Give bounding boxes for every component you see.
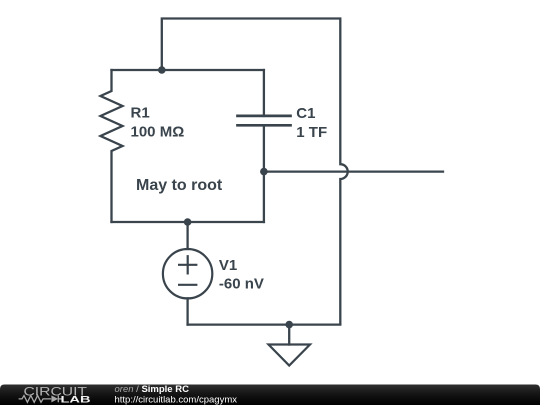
svg-text:http://circuitlab.com/cpagymx: http://circuitlab.com/cpagymx xyxy=(115,394,238,405)
svg-text:1 TF: 1 TF xyxy=(296,124,327,141)
svg-text:R1: R1 xyxy=(131,105,150,122)
svg-text:-60 nV: -60 nV xyxy=(219,276,264,293)
svg-text:C1: C1 xyxy=(296,105,315,122)
svg-text:100 MΩ: 100 MΩ xyxy=(131,124,185,141)
svg-text:May to root: May to root xyxy=(136,177,223,194)
svg-text:V1: V1 xyxy=(219,257,237,274)
svg-text:LAB: LAB xyxy=(61,394,91,405)
